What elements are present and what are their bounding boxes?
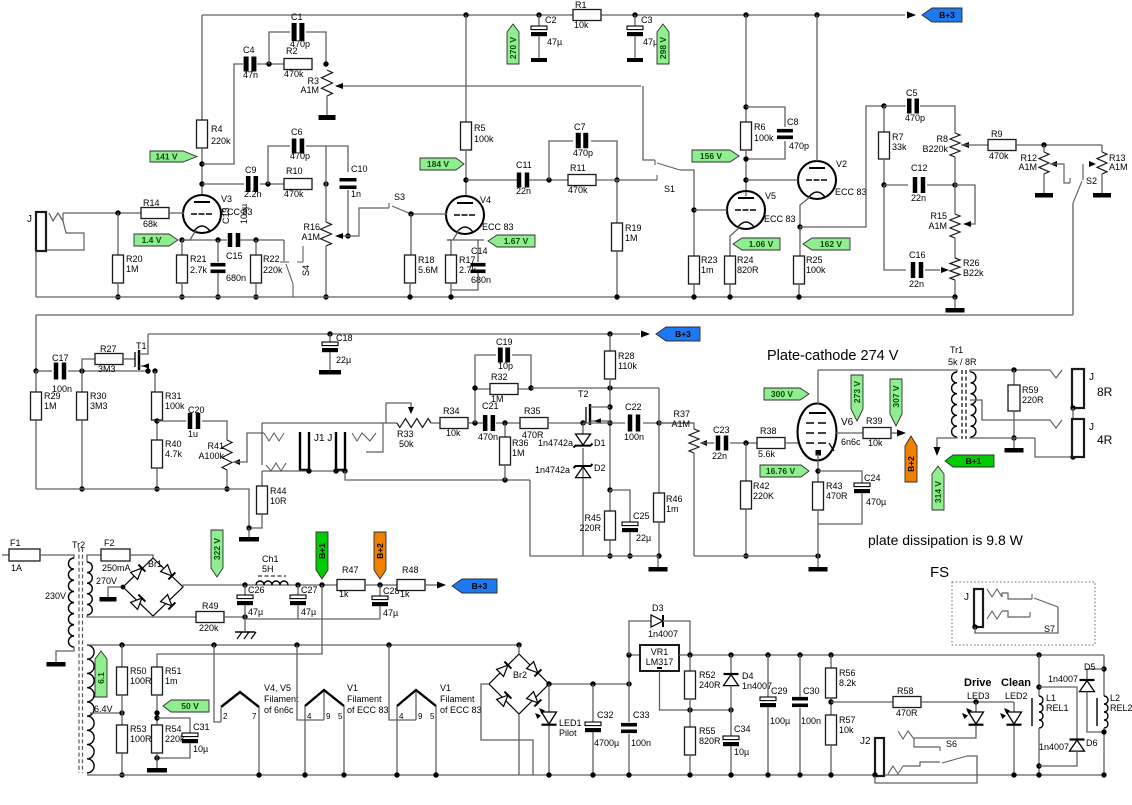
net tag B+2 screen — [905, 436, 917, 482]
svg-text:R41: R41 — [207, 441, 224, 451]
svg-text:47µ: 47µ — [301, 607, 316, 617]
wire R5 to V4 plate — [465, 150, 467, 196]
svg-text:470µ: 470µ — [866, 497, 886, 507]
jack J 8R — [1072, 369, 1084, 408]
wire left drop to C17 — [35, 315, 37, 371]
capacitor C25 — [610, 490, 630, 522]
svg-text:1m: 1m — [701, 265, 714, 275]
svg-text:S1: S1 — [664, 184, 675, 194]
svg-text:FS: FS — [930, 564, 949, 581]
svg-text:R49: R49 — [202, 601, 219, 611]
wire F2 to Br1 — [130, 555, 153, 558]
svg-text:R16: R16 — [303, 222, 320, 232]
relay coil L2 — [1104, 696, 1108, 728]
ground R12 — [1035, 193, 1053, 198]
potentiometer R12 — [1043, 145, 1045, 152]
wire V4 cathode node — [447, 239, 484, 241]
svg-text:50 V: 50 V — [181, 701, 199, 711]
svg-text:R4: R4 — [211, 124, 223, 134]
potentiometer R3 — [322, 70, 333, 96]
wire R11 to S1 contact — [595, 179, 657, 181]
svg-text:R10: R10 — [286, 166, 303, 176]
svg-text:R18: R18 — [418, 255, 435, 265]
wire C6 loop left — [268, 146, 290, 184]
resistor R28 — [605, 351, 616, 379]
resistor R43 — [813, 482, 824, 510]
svg-text:R38: R38 — [760, 426, 777, 436]
svg-text:V3: V3 — [221, 194, 232, 204]
svg-text:10p: 10p — [498, 361, 513, 371]
tag 314V — [932, 466, 944, 510]
svg-text:R53: R53 — [130, 724, 147, 734]
svg-text:REL1: REL1 — [1046, 703, 1069, 713]
resistor R19 — [616, 180, 618, 223]
resistor R29 — [35, 371, 37, 392]
svg-text:100µ: 100µ — [770, 716, 790, 726]
wire V3 plate supply R4 column — [201, 15, 203, 120]
wire C25 bottom — [629, 532, 631, 556]
svg-text:C12: C12 — [911, 163, 928, 173]
triode V5 — [727, 191, 765, 229]
svg-text:270 V: 270 V — [508, 37, 518, 60]
svg-text:1M: 1M — [625, 233, 638, 243]
wire C1 loop right — [306, 32, 326, 64]
resistor R49 — [196, 612, 224, 623]
svg-text:R26: R26 — [963, 258, 980, 268]
svg-text:T2: T2 — [578, 389, 589, 399]
fuse F2 — [101, 549, 130, 561]
wire R44 bottom — [249, 514, 262, 528]
svg-text:L2: L2 — [1110, 693, 1120, 703]
svg-text:R23: R23 — [701, 255, 718, 265]
svg-text:S6: S6 — [946, 739, 957, 749]
svg-text:V4: V4 — [480, 195, 491, 205]
wire C17 right — [68, 370, 150, 372]
wire C24 bottom — [818, 493, 862, 524]
resistor R46 — [654, 493, 665, 522]
led LED2 — [1013, 702, 1015, 712]
svg-text:C20: C20 — [188, 405, 205, 415]
wire R33 wiper — [386, 403, 411, 423]
resistor R27 — [95, 354, 123, 365]
svg-text:6.4V: 6.4V — [94, 704, 113, 714]
svg-text:R32: R32 — [491, 372, 508, 382]
potentiometer R15 — [950, 214, 960, 238]
svg-text:C16: C16 — [909, 250, 926, 260]
svg-text:1.06 V: 1.06 V — [749, 239, 774, 249]
svg-text:100n: 100n — [631, 738, 651, 748]
wire R28 bottom — [609, 379, 611, 490]
arrowhead R13 wiper — [1089, 161, 1096, 167]
svg-text:22µ: 22µ — [336, 355, 351, 365]
wire R46 bottom — [658, 522, 660, 556]
svg-text:B+3: B+3 — [939, 10, 955, 20]
svg-text:1k: 1k — [400, 589, 410, 599]
svg-text:4700µ: 4700µ — [594, 738, 619, 748]
resistor R58 — [893, 697, 921, 708]
switch S6 arm — [942, 756, 967, 763]
svg-text:9: 9 — [326, 712, 331, 721]
svg-text:V6: V6 — [841, 417, 854, 428]
resistor R20 — [117, 213, 119, 255]
svg-text:V5: V5 — [765, 191, 776, 201]
ground R13 — [1093, 193, 1111, 198]
wire jack top link — [262, 422, 383, 424]
wire D3 right — [663, 621, 690, 655]
svg-text:R2: R2 — [286, 46, 298, 56]
wire R21 bottom — [181, 283, 183, 297]
svg-text:R31: R31 — [165, 391, 182, 401]
svg-text:47µ: 47µ — [248, 607, 263, 617]
input jack J — [36, 212, 46, 251]
svg-text:16.76 V: 16.76 V — [766, 466, 796, 476]
potentiometer R8 — [950, 133, 960, 157]
jack J footswitch — [974, 589, 983, 627]
tag 1.4V — [134, 234, 178, 246]
svg-text:C26: C26 — [248, 585, 265, 595]
wire to C20 — [157, 420, 186, 422]
wire jack return — [345, 471, 530, 480]
wire C33 bottom — [628, 734, 630, 775]
tag 298V — [657, 24, 669, 64]
svg-text:3M3: 3M3 — [98, 364, 116, 374]
jack J — [336, 432, 345, 470]
resistor R1 — [573, 10, 601, 21]
svg-text:2.2n: 2.2n — [244, 189, 262, 199]
svg-text:10k: 10k — [839, 725, 854, 735]
svg-text:100k: 100k — [806, 265, 826, 275]
svg-text:B+3: B+3 — [675, 329, 691, 339]
wire C22 right — [643, 422, 692, 424]
svg-text:C17: C17 — [52, 353, 69, 363]
svg-text:V1: V1 — [440, 683, 451, 693]
capacitor C4 — [244, 57, 249, 72]
wire R52 bottom — [689, 699, 691, 710]
resistor R25 — [799, 227, 801, 256]
wire R13 bottom — [1101, 174, 1103, 193]
svg-text:1M: 1M — [512, 448, 525, 458]
wire B+3 top rail — [202, 14, 573, 16]
svg-text:C32: C32 — [597, 710, 614, 720]
regulator VR1 — [640, 645, 679, 671]
svg-text:R50: R50 — [130, 666, 147, 676]
svg-text:of ECC 83: of ECC 83 — [347, 705, 389, 715]
svg-text:R55: R55 — [699, 726, 716, 736]
jack contact upper right — [352, 433, 376, 441]
wire R13 wiper — [1083, 163, 1096, 165]
jack J1 contact lower left — [266, 463, 286, 471]
wire R26 bottom — [954, 280, 956, 297]
wire R3 wiper to S1 — [336, 85, 641, 87]
wire mid B+3 rail — [148, 333, 640, 335]
svg-text:22n: 22n — [712, 451, 727, 461]
svg-text:470k: 470k — [284, 189, 304, 199]
svg-text:470n: 470n — [478, 432, 498, 442]
wire heater top rail — [87, 644, 519, 646]
wire R39 right — [891, 432, 898, 434]
svg-text:B220k: B220k — [922, 144, 948, 154]
svg-text:C11: C11 — [516, 160, 532, 170]
svg-text:156 V: 156 V — [700, 151, 723, 161]
wire L1 feed — [1038, 655, 1040, 696]
arrowhead to B+3 — [907, 12, 916, 19]
wire C16 to R26 — [925, 269, 940, 271]
wire jack bottom bus — [262, 470, 345, 472]
tag 6.1 — [95, 651, 107, 697]
capacitor C14 — [477, 240, 479, 262]
wire D6 branch — [1039, 687, 1077, 739]
wire R36 bottom — [504, 465, 506, 480]
capacitor C29 — [767, 655, 769, 697]
svg-text:B22k: B22k — [963, 268, 984, 278]
svg-text:1n4007: 1n4007 — [648, 629, 678, 639]
arrowhead R26 wiper — [941, 267, 949, 273]
svg-text:R29: R29 — [44, 391, 61, 401]
resistor R48 — [397, 580, 425, 591]
wire R24 bottom — [729, 284, 731, 297]
svg-text:C15: C15 — [226, 251, 243, 261]
resistor R14 — [141, 208, 169, 219]
svg-text:1u: 1u — [188, 429, 198, 439]
arrowhead R3 wiper — [335, 83, 343, 89]
svg-text:68k: 68k — [143, 219, 158, 229]
svg-text:R15: R15 — [930, 211, 947, 221]
capacitor C28 — [379, 585, 381, 596]
arrowhead mid B+3 — [641, 331, 650, 338]
svg-text:V2: V2 — [836, 159, 847, 169]
svg-text:R40: R40 — [165, 439, 182, 449]
triode V2 — [798, 161, 836, 199]
svg-text:R22: R22 — [263, 254, 280, 264]
svg-text:C8: C8 — [787, 117, 799, 127]
resistor R57 — [826, 715, 837, 745]
wire D5 branch — [1087, 669, 1104, 680]
svg-text:Filament: Filament — [440, 694, 475, 704]
wire R45 bottom — [609, 540, 611, 556]
wire R12 bottom — [1043, 174, 1045, 193]
wire cap return — [245, 618, 380, 620]
wire C22 left — [583, 422, 625, 424]
svg-text:B+2: B+2 — [375, 543, 385, 559]
switch S2 arm — [1073, 181, 1082, 203]
svg-text:680n: 680n — [471, 275, 491, 285]
wire C28 bottom — [379, 606, 381, 619]
jack J2 tip contact — [898, 731, 914, 739]
node 8R sleeve — [1070, 405, 1075, 410]
svg-text:5: 5 — [338, 712, 343, 721]
wire C13 to R22 — [240, 239, 284, 241]
wire R31 bottom node — [156, 420, 158, 440]
svg-text:D6: D6 — [1086, 738, 1098, 748]
wire C10 bottom to R16 wiper — [347, 190, 349, 236]
svg-text:LED3: LED3 — [967, 691, 990, 701]
wire R4 bottom — [201, 148, 203, 196]
resistor R55 — [689, 710, 691, 727]
svg-text:Pilot: Pilot — [559, 728, 577, 738]
capacitor C20 — [188, 413, 193, 429]
node R2 R3 — [323, 61, 328, 66]
wire C6 loop right — [306, 145, 326, 147]
wire Br1 bottom to R49 — [153, 616, 196, 617]
capacitor C2 — [538, 15, 540, 26]
resistor R42 — [745, 443, 747, 481]
svg-text:307 V: 307 V — [891, 385, 901, 408]
resistor R32 — [475, 388, 531, 390]
svg-text:B+1: B+1 — [966, 456, 982, 466]
wire R32 to R28 node — [531, 387, 659, 389]
svg-text:1A: 1A — [11, 563, 22, 573]
svg-text:Br2: Br2 — [513, 670, 527, 680]
svg-text:100k: 100k — [165, 401, 185, 411]
diode D5 — [1080, 679, 1095, 681]
svg-text:10µ: 10µ — [193, 744, 208, 754]
svg-text:C23: C23 — [713, 425, 730, 435]
wire Br2 bottom — [518, 714, 520, 775]
capacitor C11 — [517, 173, 522, 188]
svg-text:R34: R34 — [443, 406, 460, 416]
svg-text:Ch1: Ch1 — [262, 554, 279, 564]
svg-text:A1M: A1M — [1018, 162, 1037, 172]
wire to 4R sleeve — [1035, 438, 1072, 457]
wire C27 bottom — [297, 605, 299, 619]
svg-text:R51: R51 — [165, 666, 182, 676]
net tag B+3 psu — [452, 579, 497, 593]
wire R27 loop — [82, 359, 95, 371]
wire C5 right — [920, 106, 955, 133]
capacitor C21 — [483, 415, 488, 431]
triode V3 — [183, 195, 221, 233]
wire fs upper — [1002, 593, 1032, 599]
wire jack sleeve down — [35, 251, 37, 297]
svg-text:V1: V1 — [347, 683, 358, 693]
wire R15 to R26 — [954, 238, 956, 258]
resistor R9 — [988, 140, 1016, 151]
tag 322V — [211, 530, 223, 577]
svg-text:B+2: B+2 — [906, 456, 916, 472]
winding Tr2 270V — [87, 562, 92, 615]
wire R48 right — [425, 584, 437, 586]
resistor R35 — [520, 418, 548, 429]
svg-text:4.7k: 4.7k — [165, 449, 183, 459]
svg-text:R54: R54 — [165, 724, 182, 734]
wire R22 bottom — [255, 283, 257, 297]
ground mid B — [809, 567, 828, 572]
wire S3 to V4 grid — [411, 213, 447, 215]
wire jack return drop — [530, 480, 583, 556]
node C8 top — [743, 104, 748, 109]
wire B+ rail — [183, 585, 337, 587]
svg-text:R47: R47 — [342, 565, 359, 575]
svg-text:250mA: 250mA — [102, 563, 131, 573]
svg-text:8R: 8R — [1097, 385, 1113, 399]
svg-text:3M3: 3M3 — [90, 401, 108, 411]
capacitor C8 — [777, 129, 793, 133]
wire D5 bottom — [1087, 692, 1104, 732]
svg-text:273 V: 273 V — [852, 381, 862, 404]
svg-text:22n: 22n — [911, 193, 926, 203]
wire V6 screen to R39 — [836, 432, 863, 434]
wire Br2 top feed — [518, 645, 520, 654]
wire F1 to Tr2 — [40, 555, 74, 558]
svg-text:470R: 470R — [826, 491, 848, 501]
wire R58 right — [921, 701, 1014, 703]
svg-text:R52: R52 — [699, 670, 716, 680]
wire R49 right — [224, 616, 245, 618]
svg-text:R21: R21 — [190, 254, 207, 264]
svg-text:298 V: 298 V — [658, 37, 668, 60]
resistor R11 — [568, 175, 596, 186]
potentiometer R13 — [1101, 145, 1103, 152]
resistor R36 — [504, 423, 506, 437]
svg-text:220k: 220k — [263, 265, 283, 275]
svg-text:A1M: A1M — [301, 232, 320, 242]
svg-text:820R: 820R — [699, 736, 721, 746]
svg-text:ECC 83: ECC 83 — [482, 222, 514, 232]
svg-text:R14: R14 — [143, 198, 160, 208]
resistor R34 — [440, 418, 468, 429]
diode D4 — [730, 655, 732, 674]
svg-text:100n: 100n — [801, 716, 821, 726]
svg-text:J2: J2 — [860, 736, 871, 747]
wire V2 plate stem — [816, 15, 818, 161]
wire C10 top — [326, 146, 348, 172]
svg-text:1n4742a: 1n4742a — [535, 465, 570, 475]
resistor R2 — [284, 59, 312, 70]
svg-text:4: 4 — [399, 712, 404, 721]
wire tone ground stem — [954, 297, 956, 308]
svg-text:A1M: A1M — [928, 221, 947, 231]
relay coil L1 — [1039, 696, 1043, 728]
node R10 right — [323, 181, 328, 186]
tag 50V — [163, 700, 209, 712]
wire C4 to R2 node — [257, 63, 284, 65]
svg-text:10k: 10k — [446, 428, 461, 438]
ground tone stack — [946, 308, 965, 313]
svg-text:R56: R56 — [839, 668, 856, 678]
svg-text:D4: D4 — [742, 671, 754, 681]
jack 8R contact — [1050, 370, 1062, 378]
wire R51 bottom — [156, 695, 158, 725]
wire R30 bottom — [81, 420, 83, 489]
svg-text:6n6c: 6n6c — [841, 437, 861, 447]
svg-text:220k: 220k — [211, 136, 231, 146]
jack J2 — [875, 738, 884, 776]
wire 270V top — [87, 555, 101, 562]
diode D6 — [1070, 738, 1085, 740]
wire C29 bottom — [767, 707, 769, 775]
wire Br2 left — [481, 684, 533, 775]
svg-text:C25: C25 — [633, 511, 650, 521]
svg-text:R46: R46 — [666, 494, 683, 504]
svg-text:230V: 230V — [45, 591, 66, 601]
svg-text:S3: S3 — [394, 192, 405, 202]
svg-text:C24: C24 — [864, 473, 881, 483]
wire R59 bottom — [1013, 411, 1015, 438]
resistor R4 — [197, 120, 208, 148]
svg-text:D3: D3 — [652, 603, 664, 613]
ground 270V — [100, 597, 117, 602]
arrowhead R8 wiper — [961, 142, 969, 148]
fuse F1 — [2, 554, 9, 556]
wire R34 right — [468, 422, 483, 424]
arrowhead R41 wiper — [233, 459, 240, 465]
svg-text:1n4742a: 1n4742a — [538, 438, 573, 448]
node V3 plate — [199, 181, 204, 186]
svg-text:L1: L1 — [1046, 693, 1056, 703]
svg-text:5.6k: 5.6k — [758, 449, 776, 459]
svg-text:50k: 50k — [399, 439, 414, 449]
wire 6.4V tap — [90, 712, 122, 714]
